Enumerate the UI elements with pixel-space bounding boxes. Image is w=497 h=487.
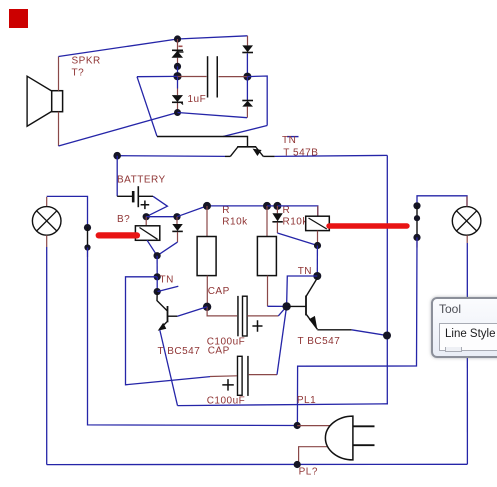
wire Q2 collector to node [177,307,207,316]
wire bridge node to top-right corner [178,36,248,39]
diode D5 top lead maroon [176,217,178,224]
junction dot2 bridge left mid [173,72,181,80]
svg-text:T?: T? [72,68,85,79]
node collector left (R1 bottom) [203,303,211,311]
wire cap2 diagonal up to node D [277,306,287,374]
relay2 bottom lead maroon [317,231,319,246]
wire plug top lead maroon [297,425,333,427]
stub wire from dot B [157,286,178,291]
transistor TN arrow [253,149,262,156]
battery minus lead [117,195,132,197]
wire D3 to mid node [246,53,248,76]
node battery top [113,152,121,160]
right contact dot lower [413,234,420,241]
wire cap1 right (maroon) [247,315,278,317]
wire cap1 diagonal to node D [278,306,286,316]
transistor Q3 collector lead [306,278,317,297]
svg-text:PL?: PL? [299,467,318,478]
diode D5 [172,224,183,231]
diode D3 top-right [242,45,253,52]
node dot A [154,273,161,280]
junction dot1 bridge left [174,63,181,70]
wire corner diagonal down to base line [137,77,157,137]
svg-text:R: R [283,205,291,216]
wire relay1 bottom diagonal [147,240,157,255]
left contact dot lower [84,244,90,250]
right lamp L2 [452,207,481,236]
battery plus sign [141,201,150,210]
node C right collector [313,272,321,280]
node below relay1 [154,252,161,259]
left contact black segment [87,228,89,248]
wire speaker top to bridge node [59,39,178,57]
wire R1 top lead maroon [206,206,208,237]
diode D6 bottom lead [276,222,278,233]
wire cap2 right (maroon) [249,374,277,376]
wire bridge bottom rail [178,113,248,118]
blue stub over TN label [287,136,299,138]
svg-text:1uF: 1uF [188,94,207,105]
wire node down to D4 [246,77,248,101]
wire node down and right to cap1 (maroon) [207,307,237,316]
Tool dialog [431,297,497,358]
svg-text:PL1: PL1 [297,395,316,406]
wire node C left corner down to node D [287,276,318,306]
svg-text:CAP: CAP [208,286,230,297]
node bridge top-left [174,35,181,42]
left lamp bottom lead maroon [46,235,48,247]
wire speaker bottom lead [58,112,60,146]
battery short plate [132,191,135,202]
wire R2 top lead maroon [266,206,268,237]
battery long plate [137,186,139,207]
svg-text:TN: TN [160,275,174,286]
node on long vertical [383,332,391,340]
node relay2 bottom [314,242,321,249]
transistor Q2 emitter [159,322,167,330]
left lamp wire down [46,247,48,465]
svg-text:R: R [222,205,230,216]
zener diode D2 lower-left with 1uF [172,95,183,104]
node relay1 top [143,213,150,220]
relay B? diagonal [140,228,158,240]
wire D5 node diagonal to resistor row [177,206,207,217]
transistor Q3 bar [305,296,307,316]
svg-text:BATTERY: BATTERY [117,175,166,186]
capacitor C100uF (1) right plate [243,296,248,336]
cap2 plus sign [222,379,234,391]
diode D4 bottom-right [242,101,253,107]
battery plus lead [138,195,153,197]
right contact dot mid [414,215,420,221]
wire dot A to dot B [156,277,158,292]
node D6 top [273,202,281,210]
svg-text:R10k: R10k [222,217,248,228]
wire node down to dot A [156,256,158,277]
node D base node [282,302,290,310]
speaker SPKR horn [27,76,51,126]
left lamp top wire [47,196,88,227]
wire mid-right rail node to right corner [247,76,267,126]
wire top-right corner down (maroon) [247,36,249,46]
node R1 top [203,202,211,210]
capacitor C100uF (1) left plate [237,296,239,336]
wire battery left [116,156,118,197]
zener diode D1 top-left [172,50,184,58]
plug PL1 prong upper [353,425,375,427]
svg-text:R10k: R10k [283,217,309,228]
wire emitter row from battery node [117,155,225,158]
transistor Q2 emitter arrow [158,323,167,331]
wire mid-left rail from dot2 to corner [137,75,178,77]
wire R2 bottom lead maroon [267,276,269,307]
wire dot A left and down loop [126,277,211,385]
tiny red c mark [179,45,183,47]
transistor Q2 collector [168,315,178,317]
left contact dot upper [84,224,91,231]
plug PL1 prong lower [353,444,375,446]
capacitor C100uF (2) right plate [247,356,249,396]
resistor R2 box [257,237,276,276]
svg-text:TN: TN [282,135,296,146]
wire TN collector to long vertical [275,155,388,156]
svg-text:CAP: CAP [208,346,230,357]
speaker SPKR body rect [52,91,63,112]
wire emitter run to long vertical [178,404,389,406]
right contact dot upper [413,202,420,209]
right contact black segment [416,206,418,238]
wire left contact down to plug row [88,248,298,426]
wire R2 bottom to node D [268,305,287,307]
capacitor C 1uF right plate [217,56,219,97]
transistor Q3 base lead [289,305,307,307]
thick red wire 2 [329,223,407,228]
svg-text:SPKR: SPKR [72,56,101,67]
red marker square [9,9,28,28]
wire right contact down-left to plug column [297,237,417,425]
node plug bottom [294,461,301,468]
wire relay1 coil lead maroon [145,217,147,226]
svg-text:B?: B? [117,214,130,225]
transistor Q3 emitter arrow [309,316,317,329]
transistor TN (T 547B) [230,147,263,157]
wire relay2 node down to node C [316,246,318,277]
bridge mid-right node [243,73,251,81]
wire D5 to node diagonal [157,242,177,256]
wire D6 node to relay2 feed [277,206,317,216]
wire D4 down corner (maroon) [246,107,248,118]
wire speaker bottom diagonal to bridge bottom node [59,113,178,147]
diode D6 [272,213,282,222]
transistor Q2 bar [167,306,169,322]
relay2 box [306,216,330,230]
plug PL1 semicircle [325,416,353,460]
capacitor C 1uF left plate [207,56,209,97]
thick red wire 1 [99,232,137,238]
node dot B [154,288,161,295]
wire dot1 to dot2 [177,66,179,76]
capacitor C100uF (2) left plate [238,356,243,395]
diode D6 top lead maroon [276,206,278,213]
right lamp bottom lead maroon [466,235,468,243]
bridge bottom-left node [174,109,181,116]
svg-text:TN: TN [298,266,312,277]
wire into zener D2 (maroon) [177,89,179,113]
wire battery to relay node (kink) [146,196,167,216]
wire cap right plate to mid-right node (maroon) [219,76,248,78]
wire speaker top lead [58,57,60,91]
resistor R1 box [197,237,216,276]
wire Q3 emitter run [317,329,351,331]
right lamp wire down [466,243,468,464]
right lamp top lead maroon [466,196,468,206]
left lamp L1 [32,207,61,236]
right contact top corner wire [417,196,467,207]
wire TN collector lead black [263,155,274,157]
transistor Q3 emitter [307,315,318,330]
relay2 coil lead maroon [317,206,319,216]
relay2 diagonal [309,218,327,229]
wire left contact maroon stub [87,248,89,257]
wire main row node to R1 [207,205,267,207]
wire bridge left column upper (maroon) [177,39,179,66]
transistor Q2 (left BC547) base lead [157,292,167,311]
wire transistor TN base line (black) [157,137,248,147]
wire dot2 to cap left plate (maroon) [178,76,207,78]
cap1 plus sign [252,320,262,332]
node R2 top [263,202,271,210]
wire right corner diagonal to base line [223,126,267,137]
wire Q2 emitter down diagonal [160,330,178,406]
diode D5 bottom lead maroon [177,232,179,242]
long vertical wire right [386,155,388,403]
wire D6 to relay2 bottom node [277,233,317,246]
wire right contact maroon stub [416,239,418,248]
relay B? box [135,226,159,241]
node plug top [294,422,301,429]
wire R2 node to D6 node [267,205,277,207]
wire cap2 left (maroon) [210,375,237,378]
svg-text:T BC547: T BC547 [298,336,341,347]
node D5 top [173,213,180,220]
wire relay1 node to D5 node [146,216,177,218]
wire R1 bottom lead maroon [206,276,208,307]
wire dot2 down [177,76,179,88]
wire plug bottom lead maroon [299,447,328,464]
wire Q3 emitter to node on vertical [352,330,387,336]
bottom rail wire [47,463,468,465]
wire TN emitter lead black [225,155,230,157]
